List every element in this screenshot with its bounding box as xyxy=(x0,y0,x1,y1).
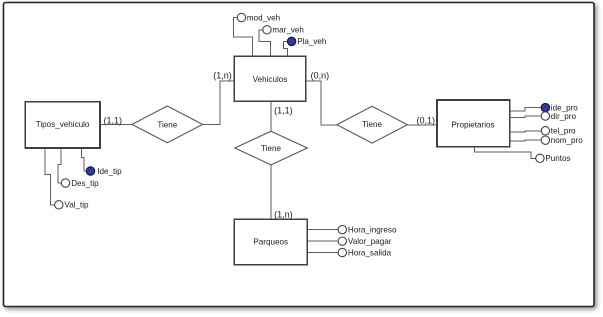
relationship Tiene (right) xyxy=(337,106,408,143)
attribute nom_pro xyxy=(541,136,549,144)
entity Vehiculos xyxy=(234,56,305,101)
svg-text:Val_tip: Val_tip xyxy=(64,201,89,210)
attribute Puntos xyxy=(536,154,544,162)
wire right Tiene to Propietarios xyxy=(407,124,437,126)
attribute mar_veh xyxy=(263,26,271,34)
wire Pla_veh xyxy=(283,41,287,56)
svg-text:Tiene: Tiene xyxy=(362,120,382,129)
attribute Hora_salida xyxy=(338,248,346,256)
attribute dir_pro xyxy=(541,112,549,120)
svg-text:(0,n): (0,n) xyxy=(311,70,330,80)
svg-text:Tiene: Tiene xyxy=(157,120,177,129)
wire mod_veh xyxy=(234,18,253,57)
svg-text:Pla_veh: Pla_veh xyxy=(297,37,326,46)
svg-text:dir_pro: dir_pro xyxy=(551,112,577,121)
svg-text:(0,1): (0,1) xyxy=(417,116,436,126)
svg-text:Valor_pagar: Valor_pagar xyxy=(348,237,392,246)
attribute Des_tip xyxy=(61,179,69,187)
svg-text:mod_veh: mod_veh xyxy=(247,13,280,22)
attribute Val_tip xyxy=(55,201,63,209)
entity Parqueos xyxy=(234,219,307,264)
wire dir_pro xyxy=(510,116,541,118)
svg-text:(1,1): (1,1) xyxy=(274,105,293,115)
wire Tipos_vehiculo to left Tiene xyxy=(100,123,133,125)
wire Val_tip xyxy=(45,148,55,205)
svg-text:Vehiculos: Vehiculos xyxy=(253,75,288,84)
attribute Ide_tip (key) xyxy=(86,167,94,175)
svg-text:(1,1): (1,1) xyxy=(104,116,123,126)
wire Vehiculos to right Tiene xyxy=(306,81,337,125)
svg-text:Puntos: Puntos xyxy=(545,154,570,163)
svg-text:Propietarios: Propietarios xyxy=(451,120,494,129)
attribute Pla_veh (key) xyxy=(287,37,295,45)
svg-text:Tiene: Tiene xyxy=(261,144,281,153)
attribute Valor_pagar xyxy=(338,237,346,245)
wire Puntos xyxy=(475,147,536,159)
svg-text:Tipos_vehiculo: Tipos_vehiculo xyxy=(36,120,90,129)
svg-text:nom_pro: nom_pro xyxy=(551,136,583,145)
attribute Hora_ingreso xyxy=(338,225,346,233)
wire Hora_salida xyxy=(307,252,338,254)
wire mar_veh xyxy=(259,30,271,57)
wire middle Tiene to Parqueos xyxy=(270,165,272,219)
svg-text:Parqueos: Parqueos xyxy=(253,237,288,246)
svg-text:Des_tip: Des_tip xyxy=(71,179,99,188)
wire left Tiene to Vehiculos xyxy=(203,81,235,125)
relationship Tiene (left) xyxy=(132,106,203,143)
wire Des_tip xyxy=(58,148,61,183)
svg-text:tel_pro: tel_pro xyxy=(551,127,576,136)
relationship Tiene (middle) xyxy=(235,131,307,165)
wire tel_pro xyxy=(510,131,541,132)
attribute mod_veh xyxy=(237,13,245,21)
svg-text:Ide_tip: Ide_tip xyxy=(97,167,122,176)
svg-text:(1,n): (1,n) xyxy=(213,70,232,80)
attribute ide_pro (key) xyxy=(541,103,549,111)
wire Valor_pagar xyxy=(307,240,338,242)
wire Hora_ingreso xyxy=(307,229,338,231)
svg-text:Hora_salida: Hora_salida xyxy=(348,248,392,257)
wire Ide_tip xyxy=(82,148,87,171)
svg-text:Hora_ingreso: Hora_ingreso xyxy=(348,225,397,234)
wire nom_pro xyxy=(510,139,541,142)
wire ide_pro xyxy=(510,108,541,111)
entity Tipos_vehiculo xyxy=(25,102,100,148)
entity Propietarios xyxy=(437,100,510,147)
attribute tel_pro xyxy=(541,127,549,135)
svg-text:mar_veh: mar_veh xyxy=(272,26,304,35)
svg-text:(1,n): (1,n) xyxy=(274,210,293,220)
wire Vehiculos to middle Tiene xyxy=(270,101,272,131)
